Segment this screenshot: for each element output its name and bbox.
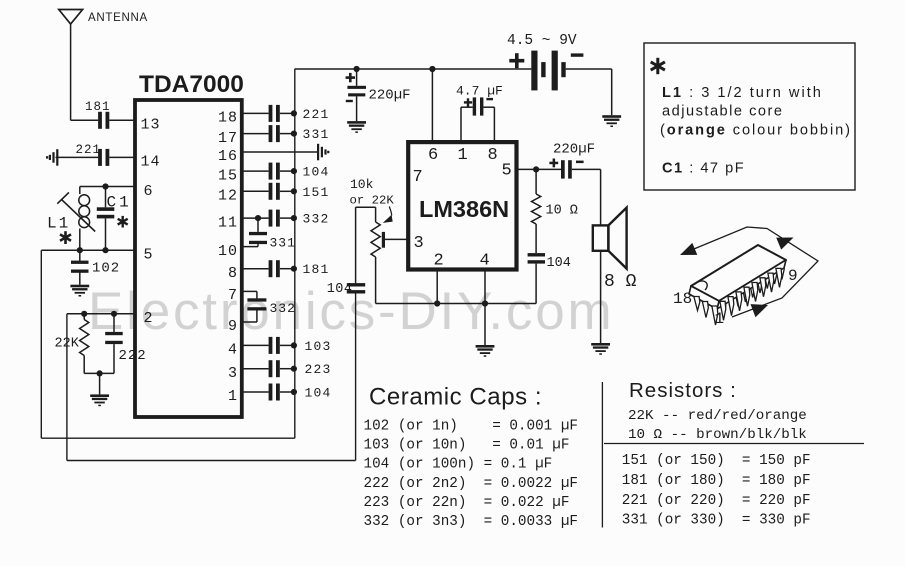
node 220uF supply — [354, 66, 360, 72]
wire pin to cap 331 — [242, 133, 269, 135]
svg-text:6: 6 — [428, 146, 438, 165]
wire pin to cap 221 — [242, 112, 269, 114]
table divider horizontal — [604, 443, 864, 445]
svg-text:102: 102 — [92, 261, 120, 277]
wire bottom horizontal to bus — [41, 437, 294, 439]
legend box — [644, 43, 855, 190]
4.7uF plus — [464, 101, 472, 103]
legend asterisk — [651, 58, 665, 74]
svg-text:332: 332 — [303, 212, 330, 227]
wire pin10 — [242, 246, 258, 248]
svg-text:or 22K: or 22K — [350, 194, 395, 208]
svg-text:8: 8 — [228, 265, 238, 282]
wire cap to speaker — [572, 168, 601, 170]
wire bottom horizontal to volume — [67, 460, 356, 462]
wire pin5 out — [517, 168, 562, 170]
wire C181 to pin13 — [109, 119, 135, 121]
svg-text:1: 1 — [228, 388, 238, 405]
antenna symbol — [59, 10, 83, 25]
svg-text:4.5 ~ 9V: 4.5 ~ 9V — [507, 33, 577, 49]
RF ground at pin16 — [317, 144, 319, 161]
220uF minus sign — [346, 100, 353, 102]
DIP-18 package pictorial — [683, 227, 818, 325]
svg-text:17: 17 — [218, 130, 238, 147]
svg-text:1: 1 — [458, 146, 468, 165]
svg-text:220µF: 220µF — [553, 142, 595, 158]
table divider vertical — [601, 382, 603, 528]
wire LM386 pin4 stub — [484, 270, 486, 304]
wire C221 to pin14 — [109, 156, 135, 158]
svg-text:13: 13 — [141, 117, 161, 134]
svg-text:15: 15 — [218, 167, 238, 184]
inductor L1 (variable, 3 1/2 turn) — [79, 187, 90, 251]
svg-text:223: 223 — [305, 362, 332, 377]
svg-text:10 Ω -- brown/blk/blk: 10 Ω -- brown/blk/blk — [628, 427, 807, 443]
wire cap 223 to bus — [280, 368, 295, 370]
battery plus — [509, 59, 524, 63]
potentiometer 10k body — [375, 207, 377, 222]
wire supply bus vertical — [294, 69, 296, 438]
capacitor 222 (pin2) — [113, 314, 115, 332]
svg-text:(orange colour bobbin): (orange colour bobbin) — [660, 123, 852, 139]
svg-text:16: 16 — [218, 148, 238, 165]
svg-text:4: 4 — [228, 342, 238, 359]
capacitor 181 — [269, 260, 273, 277]
wire cap 331 to bus — [280, 133, 295, 135]
svg-text:331 (or 330) = 330 pF: 331 (or 330) = 330 pF — [622, 513, 811, 529]
svg-text:332: 332 — [270, 301, 296, 316]
node L1 bottom — [77, 247, 83, 253]
svg-text:14: 14 — [141, 154, 161, 171]
svg-text:331: 331 — [270, 235, 296, 250]
svg-text:181: 181 — [85, 100, 111, 114]
node C1 bottom — [102, 247, 108, 253]
wire pin7 stub — [242, 290, 257, 292]
wire battery to ground — [566, 68, 612, 70]
DIP arrowhead left — [680, 243, 697, 255]
ground below pin2 net — [99, 373, 101, 394]
node rail pin2 — [434, 300, 440, 306]
node pin5 junction — [533, 166, 539, 172]
capacitor 4.7uF (pins 1-8) — [460, 107, 462, 142]
svg-text:L1: L1 — [47, 215, 70, 233]
wire pin to cap 104 — [242, 391, 269, 393]
svg-text:223 (or 22n) = 0.022 µF: 223 (or 22n) = 0.022 µF — [364, 495, 570, 511]
node pin6/C1 junction — [102, 183, 108, 189]
capacitor 332 — [269, 210, 273, 227]
capacitor 104 — [269, 163, 273, 180]
svg-text:C1: C1 — [107, 193, 132, 211]
capacitor 103 — [269, 337, 273, 354]
svg-text:104: 104 — [547, 256, 571, 271]
wire pin16 — [242, 151, 317, 153]
wire wiper to pin3 — [385, 238, 408, 240]
capacitor 331 (pins 11-10) — [257, 218, 259, 232]
svg-text:151 (or 150) = 150 pF: 151 (or 150) = 150 pF — [622, 453, 811, 469]
wire cap 181 to bus — [280, 268, 295, 270]
ground below 220uF — [347, 121, 366, 124]
capacitor 181 (antenna coupling) — [98, 112, 102, 129]
RF ground at pin14 — [56, 149, 58, 166]
svg-text:221 (or 220) = 220 pF: 221 (or 220) = 220 pF — [622, 493, 811, 509]
node pin6 supply — [429, 66, 435, 72]
svg-text:8 Ω: 8 Ω — [604, 272, 637, 292]
svg-text:18: 18 — [673, 290, 692, 308]
wire pin to cap 223 — [242, 368, 269, 370]
svg-text:220µF: 220µF — [369, 87, 411, 103]
svg-text:12: 12 — [218, 188, 238, 205]
node 22K top — [81, 311, 87, 317]
wire 22K/222 bottom join — [84, 372, 114, 374]
wire cap 104 to bus — [280, 391, 295, 393]
svg-text:332 (or 3n3) = 0.0033 µF: 332 (or 3n3) = 0.0033 µF — [364, 514, 579, 530]
svg-text:18: 18 — [218, 110, 238, 127]
capacitor 104 — [269, 384, 273, 401]
svg-text:3: 3 — [228, 365, 238, 382]
220uF out plus — [549, 162, 558, 165]
wire LM386 ground rail — [376, 303, 536, 305]
svg-text:103 (or 10n) = 0.01 µF: 103 (or 10n) = 0.01 µF — [364, 438, 570, 454]
wire pin5 drop down-left — [40, 250, 42, 438]
wire cap 151 to bus — [280, 190, 295, 192]
capacitor 221 (pin14) — [98, 149, 102, 166]
svg-text:5: 5 — [144, 246, 153, 263]
capacitor 221 — [269, 105, 273, 122]
C1 asterisk — [118, 216, 128, 228]
IC U1 TDA7000 box — [135, 100, 242, 417]
wire pin11 node — [255, 215, 261, 221]
wire antenna to C181 — [71, 119, 99, 121]
capacitor 332 (pins 7-9) — [256, 291, 258, 298]
svg-text:1: 1 — [715, 310, 725, 328]
svg-text:104 (or 100n) = 0.1 µF: 104 (or 100n) = 0.1 µF — [364, 457, 553, 473]
node bus 331 — [291, 131, 297, 137]
svg-text:8: 8 — [488, 146, 498, 165]
capacitor 223 — [269, 360, 273, 377]
node 222 top — [111, 311, 117, 317]
svg-text:2: 2 — [434, 252, 444, 271]
svg-text:331: 331 — [303, 127, 330, 142]
node bus 221 — [291, 110, 297, 116]
wire LM386 pin6 drop — [431, 69, 433, 142]
pot wiper bar — [382, 232, 385, 248]
4.7uF minus — [486, 98, 493, 100]
wire pin to cap 103 — [242, 344, 269, 346]
svg-text:104: 104 — [327, 282, 353, 297]
svg-text:10k: 10k — [350, 177, 374, 192]
svg-text:151: 151 — [303, 185, 330, 200]
node bus 181 — [291, 266, 297, 272]
220uF out minus — [576, 161, 584, 164]
wire LM386 pin2 stub — [436, 270, 438, 304]
battery B1 — [531, 51, 537, 91]
wire pin to cap 104 — [242, 170, 269, 172]
node rail pin4 — [482, 300, 488, 306]
capacitor 104 (zobel) — [528, 253, 545, 256]
battery minus — [571, 53, 584, 56]
220uF plus sign — [346, 76, 355, 79]
capacitor 151 — [269, 183, 273, 200]
wire pin6 left — [80, 186, 135, 188]
node bus 332 — [291, 215, 297, 221]
svg-text:L1 : 3 1/2 turn with: L1 : 3 1/2 turn with — [662, 85, 823, 101]
svg-text:9: 9 — [228, 318, 238, 335]
capacitor 220uF supply — [347, 86, 366, 89]
svg-text:10: 10 — [218, 243, 238, 260]
svg-text:104: 104 — [303, 165, 330, 180]
svg-text:ANTENNA: ANTENNA — [88, 12, 148, 24]
wire cap 104 to bus — [280, 170, 295, 172]
ground below 102 — [70, 285, 89, 288]
node bus 104 — [291, 389, 297, 395]
svg-text:LM386N: LM386N — [419, 196, 509, 222]
svg-text:10 Ω: 10 Ω — [546, 204, 578, 219]
resistor 22K — [83, 314, 85, 320]
wire pin9 stub — [242, 321, 257, 323]
svg-text:4.7 µF: 4.7 µF — [456, 83, 503, 98]
capacitor 331 — [269, 125, 273, 142]
ground below battery — [602, 115, 621, 118]
capacitor 102 (pin5 decoupling) — [79, 250, 81, 261]
svg-text:C1 : 47 pF: C1 : 47 pF — [662, 161, 745, 177]
svg-text:2: 2 — [144, 310, 153, 327]
DIP arrowhead bottom — [751, 304, 769, 317]
svg-text:221: 221 — [76, 143, 102, 157]
svg-text:11: 11 — [218, 214, 238, 231]
svg-text:181 (or 180) = 180 pF: 181 (or 180) = 180 pF — [622, 473, 811, 489]
svg-text:104: 104 — [305, 386, 332, 401]
svg-text:102 (or 1n) = 0.001 µF: 102 (or 1n) = 0.001 µF — [364, 419, 579, 435]
node bottom join — [97, 370, 103, 376]
capacitor C1 variable 47pF — [105, 187, 107, 208]
IC U2 LM386N box — [408, 142, 516, 269]
capacitor 104 (volume in) — [355, 207, 357, 283]
svg-text:Ceramic Caps :: Ceramic Caps : — [369, 384, 542, 411]
svg-text:5: 5 — [502, 162, 512, 181]
node bus 104 — [291, 168, 297, 174]
wire pin5 left — [41, 249, 135, 251]
svg-text:adjustable core: adjustable core — [662, 104, 783, 120]
wire cap 332 to bus — [280, 217, 295, 219]
resistor 10 ohm — [535, 169, 537, 194]
capacitor 220uF output — [561, 160, 565, 178]
node bus 103 — [291, 342, 297, 348]
svg-text:7: 7 — [228, 287, 238, 304]
svg-text:9: 9 — [788, 267, 798, 285]
DIP arrowhead right — [776, 238, 793, 250]
ground below LM386 — [484, 304, 486, 346]
node bus 223 — [291, 366, 297, 372]
wire cap 221 to bus — [280, 112, 295, 114]
svg-text:TDA7000: TDA7000 — [139, 71, 244, 98]
wire pot feed corner — [356, 206, 376, 208]
wire antenna down — [70, 24, 72, 120]
pot pointer arrow — [389, 206, 391, 215]
svg-text:22K -- red/red/orange: 22K -- red/red/orange — [628, 408, 807, 424]
svg-text:222 (or 2n2) = 0.0022 µF: 222 (or 2n2) = 0.0022 µF — [364, 476, 579, 492]
svg-text:Resistors :: Resistors : — [629, 379, 737, 402]
wire pin to cap 181 — [242, 268, 269, 270]
L1 adjust arrow diagonal — [61, 199, 95, 231]
wire pin to cap 151 — [242, 190, 269, 192]
svg-text:4: 4 — [480, 252, 490, 271]
svg-text:3: 3 — [414, 234, 424, 253]
speaker LS1 8 ohm — [593, 225, 609, 250]
svg-text:181: 181 — [303, 262, 330, 277]
L1 asterisk — [60, 231, 71, 244]
node bus 151 — [291, 188, 297, 194]
svg-text:7: 7 — [413, 168, 423, 187]
wire gnd to C221 — [56, 156, 99, 158]
wire pin2 left — [67, 313, 135, 315]
ground below speaker — [591, 343, 610, 346]
wire supply rail top — [295, 68, 532, 70]
wire cap 103 to bus — [280, 344, 295, 346]
wire speaker to ground — [600, 251, 602, 343]
svg-text:103: 103 — [305, 339, 332, 354]
svg-text:6: 6 — [144, 183, 153, 200]
wire pin to cap 332 — [242, 217, 269, 219]
svg-text:221: 221 — [303, 107, 330, 122]
wire pin2 drop — [66, 314, 68, 461]
svg-text:222: 222 — [119, 348, 147, 364]
